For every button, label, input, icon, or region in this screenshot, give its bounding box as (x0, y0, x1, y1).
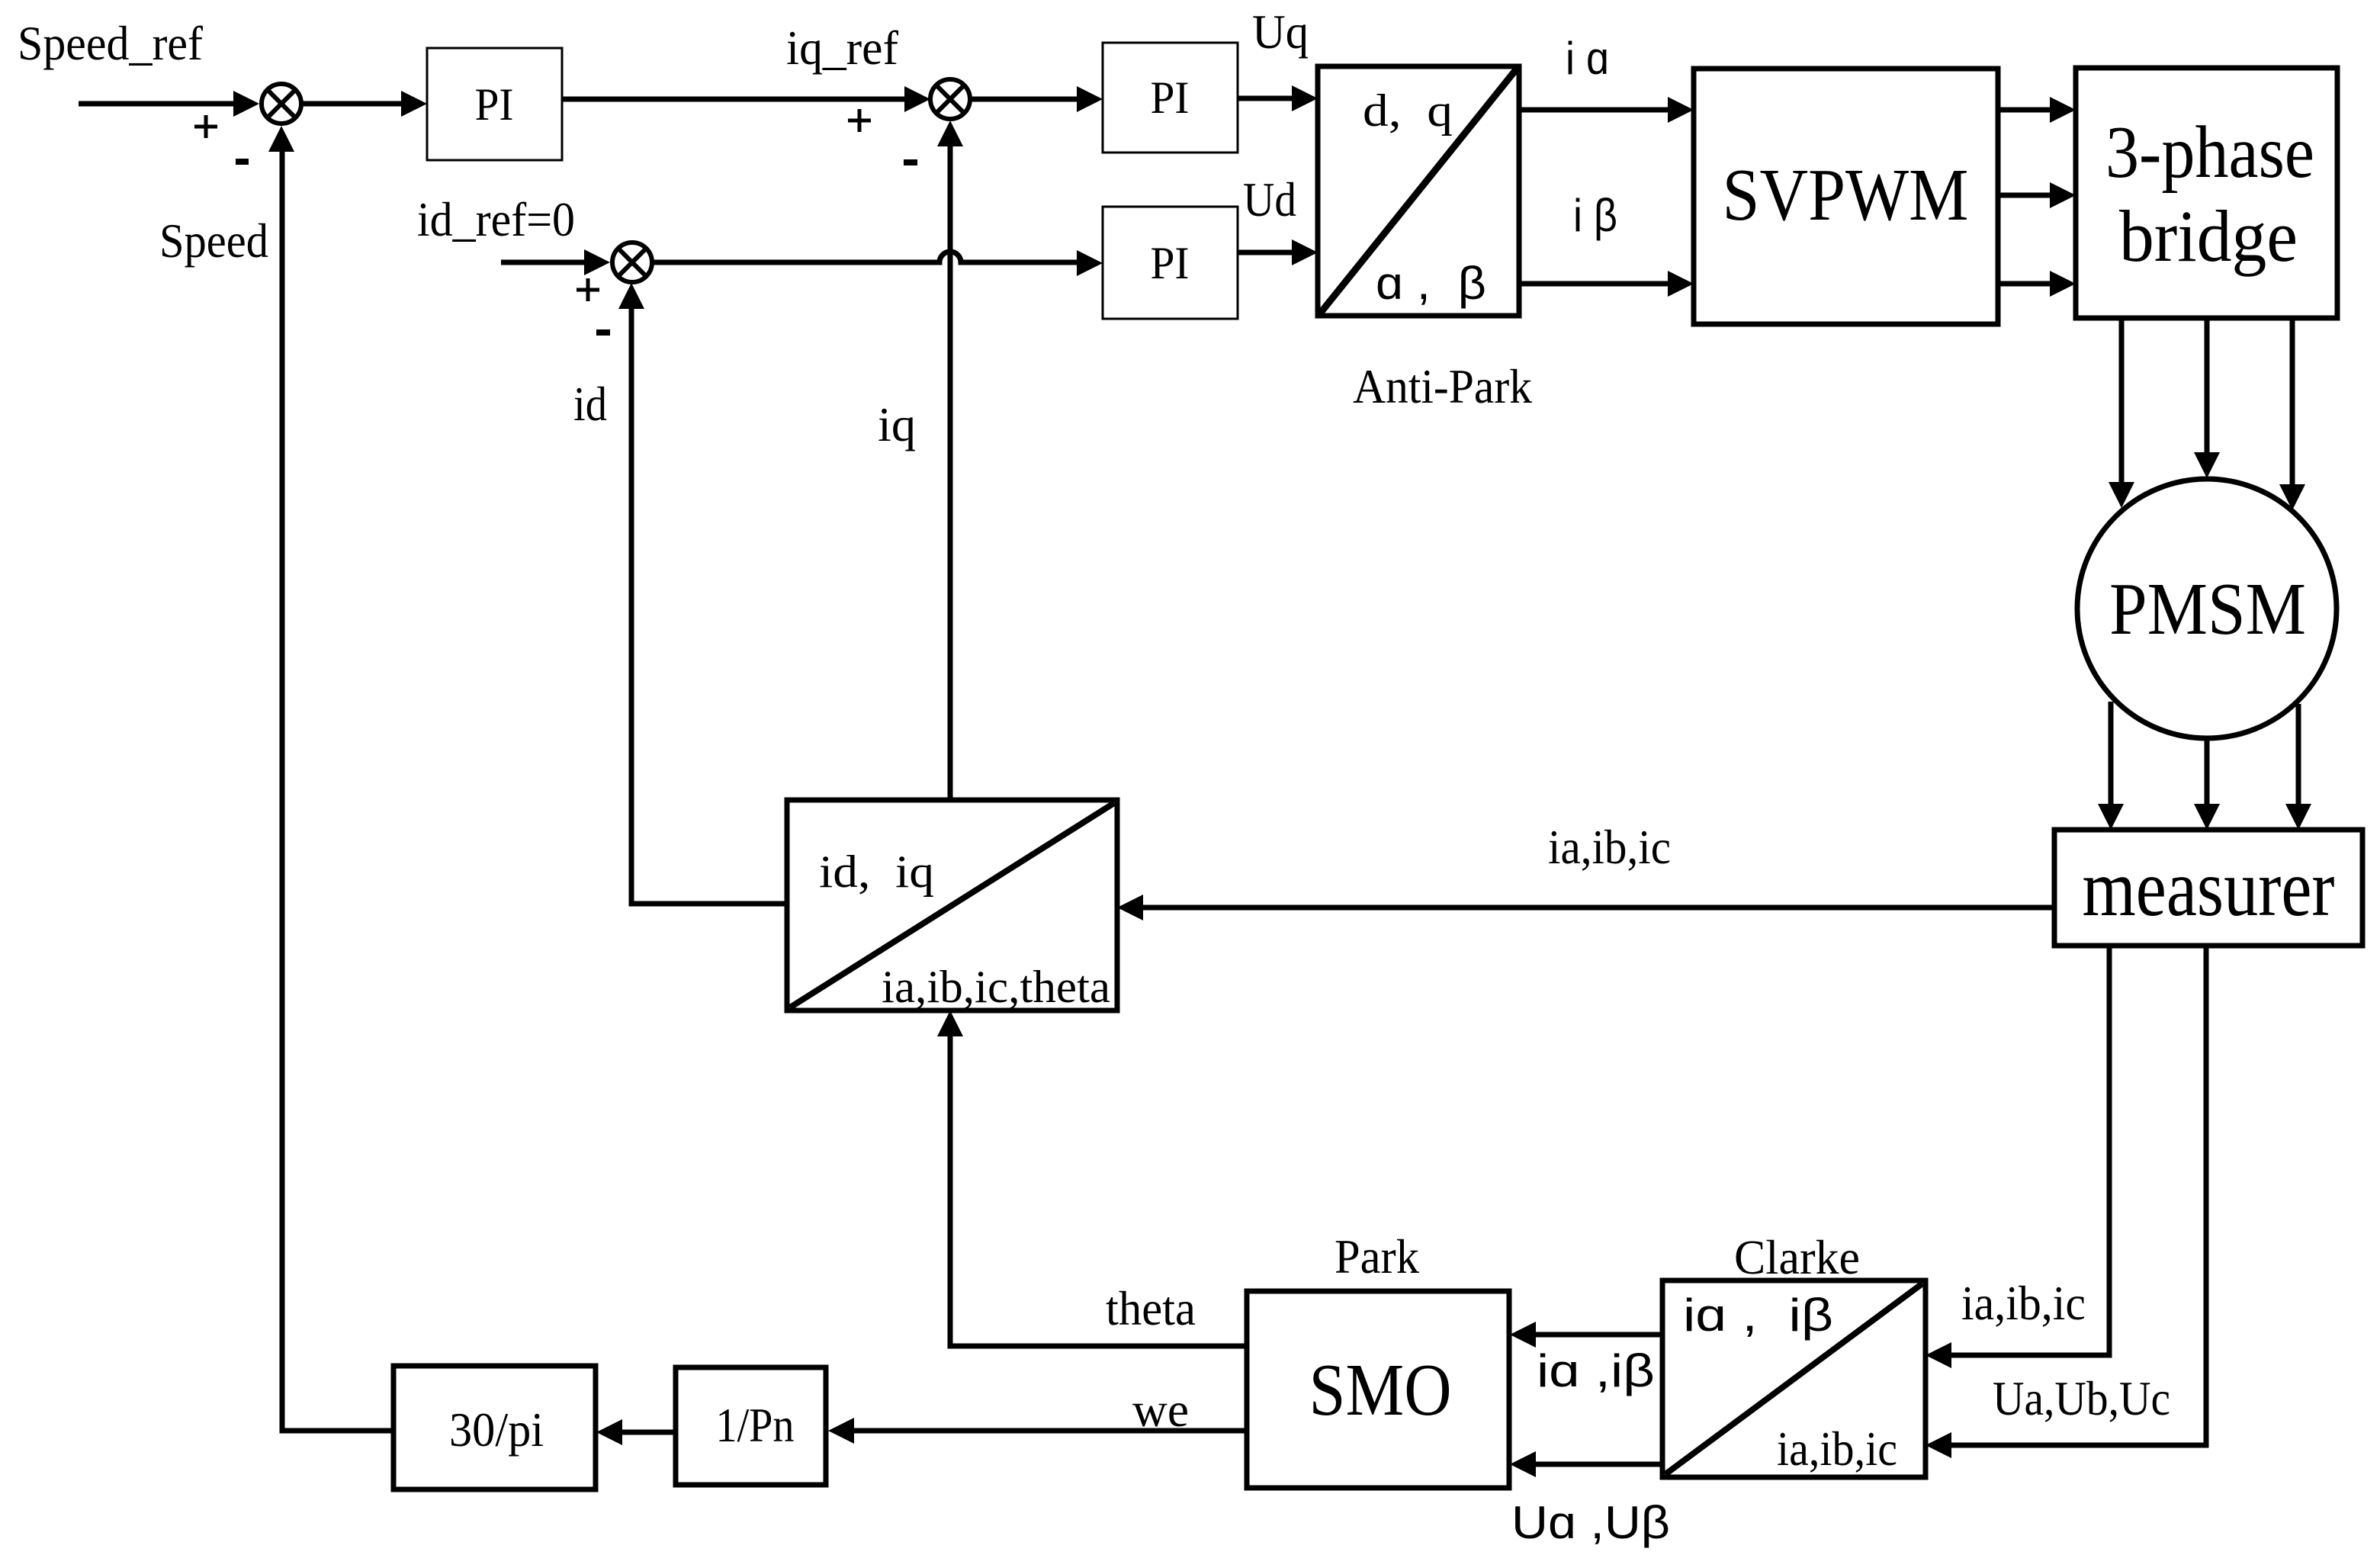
svg-text:d, q: d, q (1363, 85, 1453, 136)
block PI3 id current regulator (1103, 207, 1238, 319)
svg-text:ɑ , β: ɑ , β (1376, 258, 1486, 309)
block SMO observer (1247, 1291, 1509, 1488)
svg-text:PI: PI (1151, 72, 1190, 123)
node plus sign at iq summing (848, 109, 871, 132)
svg-text:Ua,Ub,Uc: Ua,Ub,Uc (1993, 1371, 2170, 1425)
svg-text:id, iq: id, iq (819, 847, 934, 897)
wire Speed_ref input (79, 101, 235, 107)
block Park transform id iq (787, 800, 1117, 1010)
summing junction S1 speed error (262, 84, 301, 124)
wire SVPWM to bridge 1 (1998, 108, 2052, 113)
svg-text:30/pi: 30/pi (449, 1402, 544, 1457)
wire iq feedback up to S2 (948, 145, 953, 800)
svg-text:i β: i β (1573, 190, 1617, 241)
block SVPWM (1694, 69, 1998, 324)
node minus sign at iq summing (904, 159, 917, 165)
svg-text:measurer: measurer (2083, 843, 2335, 933)
svg-text:we: we (1132, 1383, 1189, 1437)
svg-text:PMSM: PMSM (2109, 568, 2306, 651)
wire SVPWM to bridge 3 (1998, 281, 2052, 287)
svg-text:iɑ ,iβ: iɑ ,iβ (1537, 1345, 1655, 1396)
block Clarke transform (1662, 1280, 1926, 1477)
svg-text:id: id (573, 377, 607, 431)
block AntiPark inverse Park transform (1318, 66, 1519, 316)
block 1/Pn (676, 1367, 826, 1485)
svg-text:1/Pn: 1/Pn (716, 1398, 795, 1452)
wire PMSM to measurer c (2296, 704, 2301, 805)
svg-text:Anti-Park: Anti-Park (1353, 359, 1532, 413)
svg-text:Uq: Uq (1252, 5, 1309, 59)
node minus sign at speed summing (236, 159, 249, 165)
svg-text:ia,ib,ic: ia,ib,ic (1961, 1276, 2086, 1330)
wire speed feedback from 30/pi to S1 (282, 150, 393, 1431)
block 3-phase bridge (2076, 68, 2337, 318)
block PI2 iq current regulator (1103, 43, 1238, 153)
svg-text:iq: iq (878, 397, 916, 451)
wire 1/Pn to 30/pi (621, 1430, 676, 1435)
svg-text:PI: PI (1151, 238, 1190, 288)
wire Clarke to SMO U alpha beta (1534, 1462, 1662, 1467)
svg-text:ia,ib,ic: ia,ib,ic (1548, 820, 1671, 874)
wire S3 to PI3 with hop over iq line (652, 252, 1079, 262)
wire we from SMO to 1/Pn (853, 1428, 1247, 1434)
wire PI3 to AntiPark (1238, 250, 1293, 255)
wire id_ref input (501, 260, 586, 265)
wire PI2 to AntiPark (1238, 96, 1293, 101)
summing junction S3 id error (612, 243, 652, 282)
wire AntiPark to SVPWM lower (1519, 281, 1670, 287)
svg-text:Ud: Ud (1243, 172, 1296, 227)
svg-text:bridge: bridge (2119, 195, 2298, 277)
wire AntiPark to SVPWM upper (1519, 108, 1670, 113)
svg-text:theta: theta (1106, 1281, 1196, 1335)
wire bridge to PMSM a (2119, 318, 2125, 484)
wire bridge to PMSM c (2290, 318, 2295, 486)
svg-text:Clarke: Clarke (1734, 1230, 1860, 1284)
wire SVPWM to bridge 2 (1998, 193, 2052, 198)
wire measurer to Park transform (1142, 905, 2054, 911)
block measurer (2054, 830, 2362, 946)
block PI1 speed regulator (427, 48, 562, 160)
node minus sign at id summing (596, 329, 610, 336)
wire S1 to PI1 (301, 101, 403, 107)
svg-text:id_ref=0: id_ref=0 (417, 192, 575, 246)
wire S2 to PI2 (970, 97, 1079, 102)
motor PMSM (2077, 479, 2337, 738)
wire PMSM to measurer a (2109, 702, 2114, 805)
svg-text:i ɑ: i ɑ (1566, 33, 1609, 84)
svg-text:SMO: SMO (1309, 1349, 1452, 1431)
svg-text:ia,ib,ic,theta: ia,ib,ic,theta (882, 962, 1110, 1012)
wire bridge to PMSM b (2205, 318, 2210, 454)
svg-text:SVPWM: SVPWM (1723, 154, 1969, 236)
wire measurer to Clarke voltages (1950, 946, 2206, 1445)
svg-text:Speed_ref: Speed_ref (18, 16, 204, 70)
svg-text:Park: Park (1335, 1229, 1419, 1284)
svg-text:iɑ , iβ: iɑ , iβ (1683, 1290, 1833, 1341)
wire measurer to Clarke currents (1950, 946, 2109, 1355)
summing junction S2 iq error (930, 79, 970, 119)
wire Clarke to SMO i alpha beta (1534, 1332, 1662, 1338)
wire theta from SMO to Park transform (950, 1036, 1247, 1346)
svg-text:3-phase: 3-phase (2105, 111, 2314, 194)
svg-text:ia,ib,ic: ia,ib,ic (1777, 1422, 1897, 1476)
svg-text:Speed: Speed (159, 214, 268, 268)
node plus sign at speed summing (194, 115, 217, 138)
node plus sign at id summing (577, 278, 599, 301)
wire id feedback up to S3 (631, 308, 787, 904)
svg-text:Uɑ ,Uβ: Uɑ ,Uβ (1511, 1497, 1670, 1548)
svg-text:PI: PI (475, 79, 514, 130)
svg-text:iq_ref: iq_ref (786, 21, 899, 75)
wire PMSM to measurer b (2205, 738, 2210, 805)
wire PI1 to S2 (562, 97, 906, 102)
block 30/pi (393, 1366, 596, 1489)
